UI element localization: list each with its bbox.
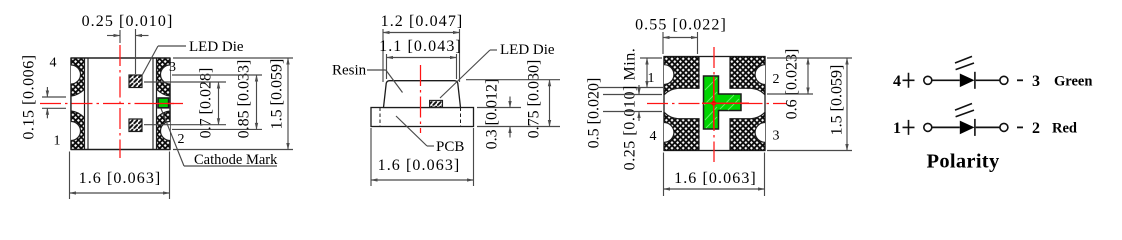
svg-text:0.85 [0.033]: 0.85 [0.033] (236, 60, 253, 139)
svg-text:0.55 [0.022]: 0.55 [0.022] (635, 17, 727, 34)
view2 PCB hidden edge left (dashed) (379, 108, 381, 127)
svg-text:2: 2 (178, 132, 185, 147)
svg-text:2: 2 (1032, 120, 1040, 137)
view1 right electrode strip (pins 3/2) hatched (157, 58, 171, 150)
svg-text:0.7 [0.028]: 0.7 [0.028] (198, 68, 215, 139)
polarity row Green: minus sign (1017, 79, 1023, 81)
svg-text:0.15 [0.006]: 0.15 [0.006] (21, 54, 38, 139)
svg-text:1: 1 (648, 71, 655, 86)
view1 right strip castellation notch lower (161, 122, 171, 141)
view2 LED die on PCB (430, 100, 443, 107)
svg-text:3: 3 (1032, 73, 1040, 90)
svg-text:2: 2 (773, 72, 780, 87)
svg-text:0.5 [0.020]: 0.5 [0.020] (586, 78, 603, 149)
svg-text:Green: Green (1054, 73, 1092, 89)
svg-text:4: 4 (50, 56, 57, 71)
view1 green cathode mark square (158, 98, 169, 108)
svg-text:Resin: Resin (332, 63, 367, 79)
view1 right strip middle gap (157, 89, 171, 117)
svg-text:0.25 [0.010]: 0.25 [0.010] (82, 13, 174, 30)
svg-text:PCB: PCB (436, 139, 464, 155)
view3 red horizontal centerline (647, 103, 787, 105)
svg-text:3: 3 (169, 60, 176, 75)
polarity row Green: left terminal circle (924, 76, 932, 84)
view2 PCB body rectangle (371, 108, 474, 127)
view2 PCB hidden edge right (dashed) (460, 108, 462, 127)
view1 LED die chip 1 (top) (129, 75, 142, 88)
view1 left strip castellation notch lower (71, 122, 81, 141)
svg-text:0.3 [0.012]: 0.3 [0.012] (484, 79, 501, 150)
svg-text:0.6 [0.023]: 0.6 [0.023] (784, 49, 801, 120)
svg-text:1.5 [0.059]: 1.5 [0.059] (269, 59, 286, 130)
polarity row Red: light emission strokes (955, 104, 974, 117)
polarity row Green: LED diode symbol (960, 74, 975, 88)
polarity row Red: left terminal circle (924, 123, 932, 131)
svg-text:4: 4 (893, 73, 901, 90)
svg-text:1.6 [0.063]: 1.6 [0.063] (674, 170, 757, 187)
polarity row Red: cathode wire (976, 126, 1000, 128)
view1 package body outline (71, 58, 170, 150)
svg-text:LED Die: LED Die (500, 42, 555, 58)
svg-text:Red: Red (1052, 120, 1077, 136)
polarity row Green: anode wire (932, 79, 960, 81)
view1 right strip inner edge (156, 58, 158, 150)
view1 red vertical centerline (119, 45, 121, 158)
polarity row Green: cathode wire (976, 79, 1000, 81)
view3 red vertical centerline (713, 47, 715, 162)
svg-text:1.6 [0.063]: 1.6 [0.063] (79, 170, 162, 187)
svg-text:1.5 [0.059]: 1.5 [0.059] (829, 65, 846, 136)
svg-text:0.25 [0.010] Min.: 0.25 [0.010] Min. (622, 48, 639, 171)
view1 body edge segments (71, 58, 170, 150)
polarity row Red: anode wire (932, 126, 960, 128)
polarity row Green: plus sign (903, 73, 915, 88)
view3 green common cathode trace (T shape) (704, 76, 742, 129)
view3 solder pad pin 2 (top-right) (730, 57, 765, 95)
svg-text:1.6 [0.063]: 1.6 [0.063] (378, 157, 461, 174)
svg-text:Polarity: Polarity (927, 151, 1000, 173)
view3 solder pad pin 3 (bottom-right) (730, 112, 765, 150)
view3 solder pad pin 1 (top-left) (664, 57, 699, 95)
view1 right inner wrap line (152, 58, 154, 150)
svg-text:1.2 [0.047]: 1.2 [0.047] (381, 13, 464, 30)
polarity row Red: plus sign (903, 120, 915, 135)
view1 right strip castellation notch upper (161, 65, 170, 84)
view2 red vertical centerline (420, 65, 422, 133)
svg-text:1.1 [0.043]: 1.1 [0.043] (379, 38, 462, 55)
view1 left strip castellation notch upper (71, 65, 80, 84)
polarity row Green: right terminal circle (1000, 76, 1008, 84)
svg-text:1: 1 (54, 134, 61, 149)
svg-text:LED Die: LED Die (189, 39, 244, 55)
polarity row Green: light emission strokes (955, 56, 974, 69)
svg-text:1: 1 (893, 120, 901, 137)
view3 solder pad pin 4 (bottom-left) (664, 112, 699, 150)
polarity row Red: right terminal circle (1000, 123, 1008, 131)
polarity row Red: minus sign (1017, 126, 1023, 128)
view3 red solid trace centerlines inside green (713, 77, 715, 129)
view1 left inner wrap line (87, 58, 89, 150)
view3 package body outline (664, 57, 765, 151)
view1 LED die chip 2 (bottom) (129, 119, 142, 132)
polarity row Red: LED diode symbol (960, 121, 975, 135)
view1 left strip middle gap (metallization separation) (71, 89, 85, 117)
view1 red horizontal centerline (40, 103, 183, 105)
view2 resin trapezoid (384, 81, 461, 108)
view1 left electrode strip (pins 4/1) hatched (71, 58, 85, 150)
svg-text:4: 4 (650, 129, 657, 144)
view1 left strip inner edge (84, 58, 86, 150)
svg-text:0.75 [0.030]: 0.75 [0.030] (526, 60, 543, 139)
svg-text:3: 3 (773, 129, 780, 144)
